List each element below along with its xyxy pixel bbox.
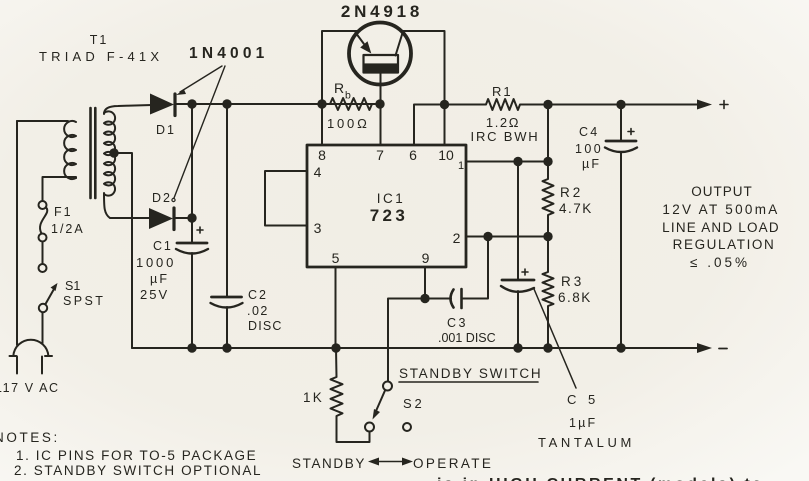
wire: pin 5 down: [335, 267, 337, 348]
svg-text:is in HIGH CURRENT (models) ta: is in HIGH CURRENT (models) ta: [437, 476, 764, 481]
svg-text:TANTALUM: TANTALUM: [538, 435, 635, 450]
Q1 collector inner lead: [396, 33, 403, 56]
node: pin 9 junction: [420, 294, 429, 303]
transistor Q1 2N4918 circle: [349, 23, 411, 85]
svg-text:OPERATE: OPERATE: [413, 456, 493, 471]
node: pin 5 rail junction: [331, 343, 340, 352]
node: C2 top rail junction: [222, 99, 231, 108]
svg-text:10: 10: [438, 147, 454, 163]
svg-text:723: 723: [370, 206, 409, 225]
wire: collector lead down: [402, 31, 445, 105]
svg-text:5: 5: [332, 250, 340, 266]
wire: AC left conductor: [16, 121, 18, 345]
svg-text:2N4918: 2N4918: [341, 2, 423, 21]
switch S2 operate contact: [403, 423, 411, 431]
node: pin2/R2R3 junction: [543, 232, 552, 241]
capacitor C5: [517, 162, 519, 281]
IC-SECTION: [265, 100, 553, 267]
svg-text:TRIAD F-41X: TRIAD F-41X: [39, 49, 163, 64]
R1-OUTPUT-SECTION: [445, 99, 729, 388]
pointer line 1N4001 to D2: [174, 66, 225, 198]
svg-text:1: 1: [458, 160, 464, 172]
svg-text:IC1: IC1: [377, 191, 406, 206]
common bottom rail: [132, 347, 700, 349]
svg-text:C 5: C 5: [567, 392, 599, 407]
svg-text:9: 9: [422, 250, 430, 266]
wire: pin 9 to C3 left: [425, 298, 451, 300]
svg-text:S2: S2: [403, 396, 425, 411]
output - arrowhead: [697, 343, 712, 353]
svg-text:R3: R3: [561, 274, 584, 289]
wire: pin 2 line: [466, 236, 548, 238]
svg-text:100: 100: [575, 142, 603, 156]
node: C4 top junction: [616, 100, 625, 109]
capacitor C3: [451, 289, 462, 308]
wire: pin 6 jog to collector net: [414, 105, 445, 146]
svg-text:6.8K: 6.8K: [558, 290, 592, 305]
node: R3 bottom junction: [543, 343, 552, 352]
node: pin2/C3 junction: [483, 232, 492, 241]
wire: emitter lead to rail: [322, 31, 357, 104]
svg-text:D2: D2: [152, 191, 172, 205]
resistor 1K zigzag: [331, 348, 343, 421]
node: D2 cathode junction: [187, 213, 196, 222]
capacitor C2: [226, 104, 228, 297]
wire: pin 4 to pin 3 loop: [265, 171, 307, 226]
svg-text:LINE AND LOAD: LINE AND LOAD: [662, 220, 780, 235]
svg-text:8: 8: [318, 147, 326, 163]
svg-text:1000: 1000: [136, 255, 176, 270]
wire: rectifier common vertical (D1 to D2 to C1): [191, 104, 193, 243]
wire: C1 to common rail: [191, 253, 193, 348]
output + sign: [720, 101, 728, 109]
node: C4 bottom junction: [616, 343, 625, 352]
svg-text:C2: C2: [248, 288, 268, 302]
svg-text:100Ω: 100Ω: [327, 116, 370, 131]
svg-text:STANDBY SWITCH: STANDBY SWITCH: [399, 366, 542, 381]
wire: secondary top lead to D1: [104, 105, 152, 114]
TRANSISTOR-SECTION: [317, 23, 444, 146]
svg-text:1N4001: 1N4001: [189, 45, 269, 62]
switch S1: [39, 264, 47, 272]
transformer T1 primary winding: [64, 121, 76, 179]
svg-text:1/2A: 1/2A: [51, 222, 85, 236]
capacitor C1: [177, 242, 207, 245]
transformer T1 core: [91, 108, 96, 198]
top rail (unregulated +): [176, 103, 380, 105]
node: center tap junction: [109, 148, 118, 157]
svg-text:1K: 1K: [303, 390, 324, 405]
wire: S1 to plug: [42, 313, 44, 344]
svg-text:OUTPUT: OUTPUT: [691, 184, 753, 199]
svg-text:3: 3: [314, 220, 322, 236]
svg-text:NOTES:: NOTES:: [0, 430, 60, 445]
wire: primary top lead: [17, 120, 68, 122]
svg-text:C1: C1: [153, 239, 173, 253]
node: collector net junction: [440, 100, 449, 109]
wire: pin 1 line to R2 top: [466, 161, 548, 163]
svg-text:IRC BWH: IRC BWH: [471, 129, 540, 144]
svg-text:REGULATION: REGULATION: [673, 237, 776, 252]
node: R1/R2 junction: [543, 157, 552, 166]
svg-text:DISC: DISC: [248, 319, 283, 333]
node: R1 right junction: [543, 100, 552, 109]
svg-text:4: 4: [314, 164, 322, 180]
svg-text:117 V AC: 117 V AC: [0, 381, 60, 395]
svg-text:R1: R1: [492, 84, 513, 99]
node: C1 bottom junction: [187, 343, 196, 352]
resistor R1 zigzag: [445, 99, 549, 110]
svg-text:µF: µF: [150, 272, 169, 286]
capacitor C4: [620, 105, 622, 142]
svg-text:C4: C4: [579, 125, 599, 139]
svg-text:1. IC PINS FOR TO-5 PACKAGE: 1. IC PINS FOR TO-5 PACKAGE: [16, 448, 257, 463]
Q1 base block: [364, 55, 399, 73]
svg-text:.001 DISC: .001 DISC: [438, 331, 496, 345]
output - sign: [719, 348, 727, 350]
switch S2 standby contact: [365, 423, 374, 432]
svg-text:R2: R2: [560, 185, 583, 200]
wire: pin 8 riser: [321, 104, 323, 145]
wire: R1 right to R2 top: [547, 105, 549, 162]
wire: pin 10 riser: [444, 105, 446, 146]
svg-text:≤ .05%: ≤ .05%: [690, 255, 750, 270]
transformer T1 secondary winding: [104, 111, 115, 195]
wire: center tap to common rail: [114, 153, 132, 348]
wire: fuse to switch S1: [42, 242, 44, 265]
RECTIFIER-SECTION: [149, 66, 380, 348]
switch S2 arm: [376, 391, 385, 412]
Q1 emitter inner lead with arrow: [356, 33, 365, 45]
fuse F1: [39, 201, 47, 209]
svg-text:F1: F1: [54, 205, 73, 219]
diode D1: [150, 94, 174, 115]
AC plug 117V: [13, 340, 48, 356]
diode D2: [149, 208, 173, 229]
resistor Rb zigzag: [322, 98, 380, 110]
svg-text:S1: S1: [65, 279, 80, 293]
pointer line C5 label: [534, 289, 576, 388]
wire: base lead down to pin 7: [380, 73, 382, 146]
svg-text:12V AT 500mA: 12V AT 500mA: [662, 202, 779, 217]
svg-text:µF: µF: [582, 157, 601, 171]
node: base rail junction: [375, 99, 384, 108]
svg-text:D1: D1: [156, 123, 176, 137]
svg-text:R: R: [334, 80, 344, 96]
C3-STANDBY-SECTION: [331, 237, 539, 466]
svg-text:4.7K: 4.7K: [559, 201, 593, 216]
node: C2 bottom junction: [222, 343, 231, 352]
node: C5 top junction: [513, 157, 522, 166]
svg-text:C3: C3: [447, 316, 468, 330]
node: C1 top rail junction: [187, 99, 196, 108]
wire: output + rail: [548, 104, 700, 106]
node: C5 bottom junction: [513, 343, 522, 352]
switch S2 common contact: [383, 382, 392, 391]
svg-text:.02: .02: [247, 304, 269, 318]
output + arrowhead: [697, 100, 712, 110]
wire: S2 standby to 1K: [337, 420, 370, 442]
op-amp/regulator IC1 723 box: [307, 145, 466, 267]
BOTTOM-RAIL: [132, 343, 727, 353]
STANDBY SWITCH underline: [399, 381, 538, 383]
svg-text:SPST: SPST: [63, 294, 105, 308]
wire: primary bottom lead: [43, 177, 77, 201]
svg-text:b: b: [345, 90, 351, 102]
svg-text:2: 2: [453, 230, 461, 246]
svg-text:1µF: 1µF: [569, 416, 597, 430]
wire: pin 9 down: [424, 267, 426, 299]
svg-text:1.2Ω: 1.2Ω: [486, 115, 520, 130]
wire: secondary bottom lead to D2: [104, 193, 151, 218]
node: emitter rail junction: [317, 99, 326, 108]
svg-text:25V: 25V: [140, 287, 169, 302]
svg-text:T1: T1: [90, 33, 109, 47]
wire: pin 9 junction to S2: [388, 299, 425, 382]
svg-text:6: 6: [409, 147, 417, 163]
svg-text:2. STANDBY SWITCH OPTIONAL: 2. STANDBY SWITCH OPTIONAL: [14, 463, 262, 478]
pointer line 1N4001 to D1: [180, 66, 222, 92]
svg-text:STANDBY: STANDBY: [292, 456, 366, 471]
wire: pin 2 down to C3: [462, 237, 488, 299]
resistor R2 zigzag: [543, 162, 554, 237]
wire: D2 cathode to junction: [174, 217, 192, 219]
svg-text:7: 7: [376, 147, 384, 163]
standby/operate double arrow: [374, 461, 407, 463]
resistor R3 zigzag: [543, 237, 554, 349]
